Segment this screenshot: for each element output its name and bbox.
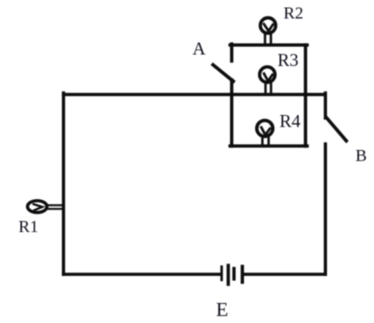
switch A blade <box>213 65 233 82</box>
wire: box left edge upper stub (switch A fixed contact) <box>230 44 233 61</box>
svg-text:R3: R3 <box>278 50 299 70</box>
svg-text:E: E <box>216 299 228 321</box>
svg-text:A: A <box>193 39 206 59</box>
wire: parallel box right edge <box>304 45 307 146</box>
wire: right conductor upper stub to switch B <box>324 93 327 118</box>
switch B blade <box>327 118 347 141</box>
wire: box left edge lower segment through node to box bottom <box>230 80 233 146</box>
wire: parallel box bottom edge <box>230 144 307 147</box>
wire: bottom conductor right of battery <box>244 273 326 276</box>
svg-text:R2: R2 <box>284 4 304 23</box>
lamp R1 (sideways bulb on left conductor) <box>28 201 63 213</box>
battery E <box>220 264 244 286</box>
svg-text:B: B <box>356 146 367 165</box>
wire: right conductor lower stub from switch B to bottom <box>324 144 327 274</box>
wire: top conductor from left wire through box to right corner <box>64 93 326 96</box>
lamp R3 <box>260 67 275 93</box>
wire: left conductor <box>62 93 65 274</box>
wire: bottom conductor left of battery <box>64 273 221 276</box>
lamp R2 <box>260 18 275 44</box>
lamp R4 <box>257 120 273 144</box>
wire: parallel box top edge <box>230 43 307 46</box>
svg-text:R4: R4 <box>280 111 301 131</box>
svg-text:R1: R1 <box>19 217 39 236</box>
